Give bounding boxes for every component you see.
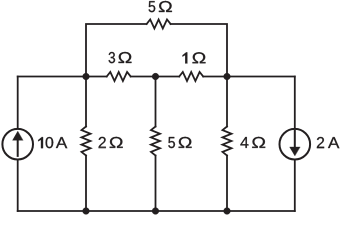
node junction dot mid-C <box>224 73 231 80</box>
wire: bottom rail <box>18 210 295 212</box>
label 3-ohm <box>109 52 132 63</box>
resistor R1 3-ohm (mid rail) <box>107 72 131 81</box>
resistor R3 2-ohm (vertical) <box>82 127 91 156</box>
wire: mid rail between node B and 1-ohm <box>131 76 180 78</box>
wire: top rail left leg from node A down to mid rail <box>86 24 147 77</box>
wire: right branch lower <box>294 160 296 211</box>
resistor R2 1-ohm (mid rail) <box>179 72 203 81</box>
node junction dot mid-A <box>83 73 90 80</box>
wire: right branch upper (mid rail to 2A source) <box>294 77 296 129</box>
wire: left branch upper (mid rail to current source) <box>17 77 19 129</box>
label 4-ohm <box>240 137 265 148</box>
label 1-ohm <box>183 52 206 63</box>
node junction dot bottom-C <box>224 208 231 215</box>
node junction dot bottom-A <box>83 208 90 215</box>
wire: left branch lower (source to bottom rail) <box>17 160 19 211</box>
node junction dot mid-B <box>152 73 159 80</box>
wire: mid rail right segment to right corner <box>203 76 295 78</box>
current source I1 10A circle <box>2 129 33 160</box>
resistor R5 4-ohm (vertical) <box>223 127 232 156</box>
wire: branch 3 lower <box>155 156 157 212</box>
label 2 A <box>317 137 339 148</box>
label 5-ohm mid <box>168 137 191 148</box>
wire: branch 4 lower <box>226 156 228 212</box>
wire: mid rail left segment from left corner to node A <box>18 76 107 78</box>
label 2-ohm <box>99 137 123 148</box>
label 10 A <box>38 137 67 148</box>
wire: branch 2 upper (node A down to 2-ohm) <box>85 77 87 127</box>
current source I2 arrow down <box>290 131 300 156</box>
current source I2 2A circle <box>280 129 311 160</box>
label 5-ohm top <box>149 1 172 12</box>
wire: branch 2 lower <box>85 156 87 212</box>
node junction dot bottom-B <box>152 208 159 215</box>
resistor R_top 5-ohm (top rail) <box>147 20 171 29</box>
wire: top rail right leg down to node C <box>171 24 227 77</box>
wire: branch 4 upper (node C down to 4-ohm) <box>226 77 228 127</box>
resistor R4 5-ohm (vertical) <box>151 127 160 156</box>
wire: branch 3 upper (node B down to 5-ohm) <box>155 77 157 127</box>
current source I1 arrow up <box>13 131 23 156</box>
